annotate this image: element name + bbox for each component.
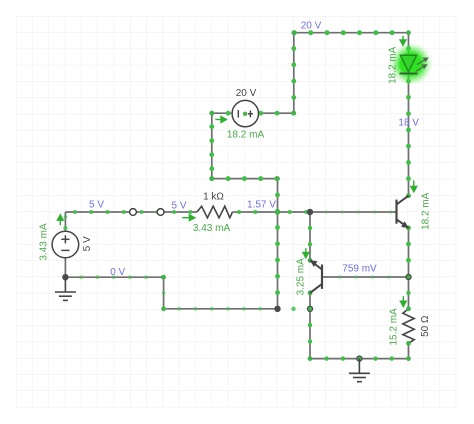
wire vertical col17: [277, 179, 279, 309]
junction dots: [62, 274, 68, 280]
svg-text:3.43 mA: 3.43 mA: [38, 223, 49, 261]
LED D1: [400, 55, 416, 72]
wire V2 right lead up: [259, 33, 294, 114]
current arrow Q2 emitter: [303, 248, 309, 258]
svg-text:3.25 mA: 3.25 mA: [296, 258, 307, 296]
voltage source V2 20V: [232, 100, 258, 126]
LED D1 glow: [390, 43, 433, 86]
wire V1 top lead: [64, 212, 66, 231]
transistor Q1 NPN: [395, 200, 397, 224]
wire bottom rail: [310, 309, 409, 359]
svg-text:5 V: 5 V: [82, 236, 93, 251]
wire 0V return path: [65, 277, 277, 309]
transistor Q2 NPN mirrored: [321, 265, 323, 289]
current dots low current faint: [79, 275, 83, 279]
wire LED cathode to Q1 collector: [408, 74, 410, 196]
ground G2: [349, 359, 370, 382]
ground G1: [55, 277, 76, 300]
wire Q1 emitter down: [408, 228, 410, 277]
current arrow into V2: [215, 117, 226, 123]
current arrow V1 up: [57, 215, 63, 225]
wire node B to Q2 emitter: [309, 212, 311, 260]
svg-text:1 kΩ: 1 kΩ: [203, 192, 224, 203]
current dots V2 loop: [209, 111, 214, 116]
current dots LED branch: [406, 46, 411, 51]
wire 5V node to switch: [65, 211, 133, 213]
svg-text:18 V: 18 V: [398, 117, 419, 128]
wire top to LED anode: [408, 33, 410, 56]
wire 20V top rail: [294, 32, 409, 34]
current dots main loop: [73, 210, 77, 214]
svg-text:0 V: 0 V: [110, 267, 125, 278]
wire node B to Q1 base: [310, 211, 397, 213]
wire Q2 collector down: [309, 293, 311, 309]
svg-text:5 V: 5 V: [89, 199, 104, 210]
svg-text:5 V: 5 V: [171, 200, 186, 211]
svg-text:20 V: 20 V: [236, 88, 257, 99]
svg-text:18.2 mA: 18.2 mA: [421, 192, 432, 230]
svg-text:20 V: 20 V: [301, 20, 322, 31]
wire node E to R2: [408, 277, 410, 309]
resistor R2 50ohm zigzag: [403, 309, 414, 344]
svg-text:1.57 V: 1.57 V: [247, 199, 276, 210]
svg-text:3.43 mA: 3.43 mA: [193, 223, 231, 234]
wire V1 bottom lead: [64, 258, 66, 277]
svg-text:759 mV: 759 mV: [342, 264, 377, 275]
current arrow into R2: [400, 296, 406, 306]
wire V2 left lead down: [212, 113, 278, 178]
wire corner dots: [131, 210, 136, 215]
svg-text:18.2 mA: 18.2 mA: [227, 129, 265, 140]
svg-text:15.2 mA: 15.2 mA: [388, 308, 399, 346]
switch S1 posts: [130, 209, 137, 216]
wire R1 to node B: [233, 211, 311, 213]
svg-text:50 Ω: 50 Ω: [420, 315, 431, 337]
wire switch to R1: [161, 211, 197, 213]
LED emission arrows: [416, 58, 428, 71]
resistor R1 1k zigzag: [197, 206, 233, 218]
current arrow Q1 collector: [411, 181, 417, 192]
wire Q2 base 759mV node: [322, 276, 409, 278]
wire into V2: [212, 112, 232, 114]
switch S1 closed blade: [133, 211, 161, 213]
current arrow into LED: [400, 36, 406, 46]
current arrow into R1: [182, 215, 195, 221]
wire R2 to bottom rail: [408, 343, 410, 358]
current dot inside V2: [243, 112, 247, 116]
svg-text:18.2 mA: 18.2 mA: [388, 46, 399, 84]
voltage source V1 5V: [52, 231, 79, 258]
